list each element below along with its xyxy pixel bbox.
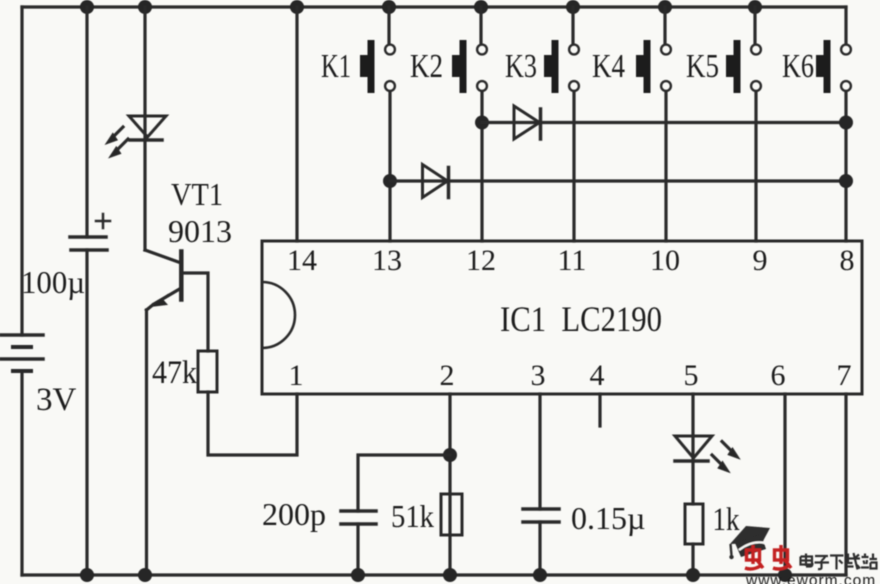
node junction pin2 at ground xyxy=(443,568,457,582)
pushbutton K4 xyxy=(636,40,671,93)
LED VD3 indicator (triangle + bar) xyxy=(675,436,712,461)
svg-text:11: 11 xyxy=(558,244,587,277)
wire left rail upper xyxy=(20,7,23,335)
transistor VT1 9013 xyxy=(145,250,181,310)
wire branch to 200p xyxy=(358,455,450,511)
node junction emitter at bottom rail xyxy=(138,568,152,582)
wire top rail to IC pin 14 xyxy=(295,7,298,241)
svg-text:K4: K4 xyxy=(592,48,625,85)
watermark chongchong character 1 (red) xyxy=(745,545,763,569)
wire IC pin 6 to ground xyxy=(783,394,786,575)
svg-text:3V: 3V xyxy=(36,382,77,418)
svg-text:K1: K1 xyxy=(321,48,351,85)
IC U1 LC2190 body xyxy=(262,241,862,394)
emission arrows of IR LED xyxy=(107,127,129,157)
wire K2 to IC pin 12 xyxy=(480,93,483,242)
svg-text:1: 1 xyxy=(289,359,304,392)
wire 47k bottom to IC pin 1 xyxy=(208,392,297,455)
svg-text:51k: 51k xyxy=(391,498,434,534)
node junction pin2 / 200p branch xyxy=(443,448,457,462)
wire rail to K5 xyxy=(753,7,756,43)
wire 0.15u to ground xyxy=(538,522,541,575)
wire 100u to bottom rail xyxy=(85,250,88,575)
node junction pin6 at ground xyxy=(778,568,792,582)
svg-text:3: 3 xyxy=(531,359,546,392)
svg-text:100µ: 100µ xyxy=(21,264,85,300)
node junction row1 right xyxy=(839,116,853,130)
pushbutton K2 xyxy=(452,40,487,93)
IC pin1 notch semicircle xyxy=(262,282,295,348)
wire bottom ground rail xyxy=(22,573,846,576)
wire IC pin 7 to ground rail corner xyxy=(844,394,847,575)
node junction K1 line / diode row2 xyxy=(383,174,397,188)
svg-text:14: 14 xyxy=(287,244,317,277)
wire top rail to IR LED xyxy=(143,7,146,140)
resistor R 51k xyxy=(441,494,462,535)
char zai xyxy=(846,553,861,570)
node junction row2 right xyxy=(839,174,853,188)
wire IC pin 4 stub (NC) xyxy=(598,394,601,426)
pushbutton K6 xyxy=(816,40,851,93)
svg-text:47k: 47k xyxy=(152,355,197,391)
svg-text:9: 9 xyxy=(753,244,768,277)
svg-text:1k: 1k xyxy=(713,502,740,538)
capacitor C 0.15u xyxy=(523,509,559,522)
svg-text:4: 4 xyxy=(590,359,605,392)
svg-text:www.eworm.com: www.eworm.com xyxy=(745,573,876,584)
svg-text:10: 10 xyxy=(650,244,680,277)
wire K3 to IC pin 11 xyxy=(572,93,575,242)
IR emitting LED VD (triangle + bar) xyxy=(129,116,166,140)
wire top rail right corner to K6 xyxy=(844,7,847,43)
capacitor C 200p xyxy=(341,511,376,524)
char xia xyxy=(830,556,844,570)
watermark graduation cap logo xyxy=(729,526,770,559)
wire rail to K2 xyxy=(479,7,482,43)
svg-text:0.15µ: 0.15µ xyxy=(571,500,645,536)
svg-text:VT1: VT1 xyxy=(171,176,223,212)
pushbutton K5 xyxy=(726,40,761,93)
wire top supply rail xyxy=(22,5,846,8)
char dian xyxy=(801,554,813,567)
node junction bottom of C 100u xyxy=(80,568,94,582)
wire IR LED cathode to transistor collector xyxy=(143,140,146,250)
pushbutton K3 xyxy=(544,40,579,93)
svg-text:K3: K3 xyxy=(505,48,537,85)
svg-text:9013: 9013 xyxy=(168,213,232,249)
wire 200p to ground xyxy=(356,524,359,575)
svg-text:6: 6 xyxy=(771,359,786,392)
wire IC pin 3 down to ground xyxy=(538,394,541,509)
node junction K2 top rail xyxy=(474,0,488,14)
wire K6 to IC pin 8 xyxy=(844,93,847,242)
watermark text dianzi xiazaizhan (drawn strokes) xyxy=(801,553,878,570)
wire IC pin 5 to LED xyxy=(691,394,694,461)
resistor R 1k xyxy=(685,504,703,544)
diode VD1 on row 2 xyxy=(423,165,449,198)
node junction pin14 top rail xyxy=(290,0,304,14)
node junction pin3 at ground xyxy=(533,568,547,582)
node junction K2 line / diode row1 xyxy=(475,116,489,130)
char zi xyxy=(815,556,830,569)
svg-text:13: 13 xyxy=(372,244,402,277)
svg-text:K2: K2 xyxy=(410,48,443,85)
svg-text:K6: K6 xyxy=(782,48,814,85)
svg-text:7: 7 xyxy=(837,359,852,392)
svg-text:K5: K5 xyxy=(686,48,719,85)
node junction K3 top rail xyxy=(566,0,580,14)
wire emitter to bottom rail xyxy=(145,310,148,575)
polarity plus sign of 100u xyxy=(96,214,110,228)
wire base lead to resistor 47k xyxy=(182,273,209,351)
pushbutton K1 xyxy=(360,40,395,93)
char zhan xyxy=(861,554,877,569)
wire diode row 2 (K1 line to pin8 line) xyxy=(390,179,846,182)
svg-text:5: 5 xyxy=(684,359,699,392)
wire LED to resistor 1k xyxy=(691,461,694,504)
node junction K5 top rail xyxy=(748,0,762,14)
node junction K1 top rail xyxy=(382,0,396,14)
wire 1k to ground xyxy=(691,544,694,575)
wire IC pin 2 down to ground xyxy=(448,394,451,575)
resistor R 47k xyxy=(198,351,217,392)
node junction top of IR LED branch xyxy=(138,0,152,14)
wire diode row 1 (K2 line to pin8 line) xyxy=(482,121,846,124)
svg-text:12: 12 xyxy=(466,244,496,277)
watermark chongchong character 2 (red) xyxy=(773,545,791,569)
wire left rail lower xyxy=(20,371,23,575)
wire rail to K1 xyxy=(387,7,390,43)
wire from top rail to capacitor C 100u xyxy=(85,7,88,237)
svg-text:8: 8 xyxy=(840,244,855,277)
wire K5 to IC pin 9 xyxy=(754,93,757,242)
wire K4 to IC pin 10 xyxy=(664,93,667,242)
capacitor C 100u electrolytic xyxy=(70,237,107,250)
svg-text:2: 2 xyxy=(440,359,455,392)
emission arrows of LED VD3 xyxy=(712,442,739,472)
node junction K4 top rail xyxy=(658,0,672,14)
node junction top of C 100u xyxy=(80,0,94,14)
svg-text:IC1 LC2190: IC1 LC2190 xyxy=(500,299,662,339)
node junction 200p at ground xyxy=(351,568,365,582)
wire rail to K4 xyxy=(663,7,666,43)
node junction pin5 at ground xyxy=(686,568,700,582)
battery GB 3V xyxy=(1,335,43,371)
wire rail to K3 xyxy=(571,7,574,43)
svg-text:200p: 200p xyxy=(262,496,326,532)
diode VD2 on row 1 xyxy=(514,106,541,139)
wire K1 to IC pin 13 xyxy=(388,93,391,242)
